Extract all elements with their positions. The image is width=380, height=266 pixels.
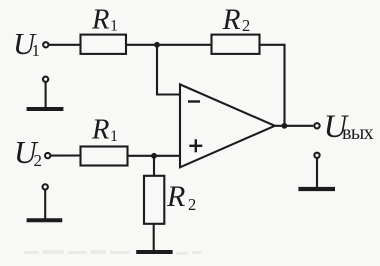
wire feedback down to output node xyxy=(283,44,285,126)
label U1 xyxy=(13,27,40,61)
plus sign non-inverting input xyxy=(189,139,202,152)
ground bar below R2 xyxy=(136,250,172,254)
junction node bottom xyxy=(151,153,157,159)
terminal circle input 2 xyxy=(45,153,50,158)
resistor R2 (top feedback) xyxy=(212,35,260,54)
svg-text:2: 2 xyxy=(242,16,250,35)
ground symbol below U2: bar xyxy=(27,218,63,222)
wire to inverting input xyxy=(156,93,180,95)
label R2 (top) xyxy=(222,4,251,36)
resistor R1 (bottom) xyxy=(81,147,128,166)
svg-text:1: 1 xyxy=(32,41,41,60)
ground symbol below U1: bar xyxy=(27,107,64,111)
wire R1 to R2 (top node) xyxy=(126,44,212,46)
junction node top xyxy=(154,42,160,48)
wire node down to inverting input xyxy=(156,45,158,95)
svg-text:1: 1 xyxy=(110,128,118,145)
op-amp DA1 triangle xyxy=(180,84,275,167)
ground symbol at output: lead xyxy=(316,158,318,187)
ground symbol below U1: lead xyxy=(45,82,47,107)
wire R1 to non-inverting input xyxy=(128,155,181,157)
ground symbol at output: terminal xyxy=(314,153,319,158)
svg-text:1: 1 xyxy=(110,17,118,34)
wire R2 to ground xyxy=(153,224,155,251)
ground symbol at output: bar xyxy=(298,187,335,191)
resistor R2 (vertical) xyxy=(144,176,164,224)
svg-text:R: R xyxy=(166,180,185,213)
junction node output xyxy=(282,123,288,129)
svg-text:2: 2 xyxy=(188,195,196,214)
svg-text:R: R xyxy=(91,5,109,36)
svg-text:R: R xyxy=(222,4,241,36)
wire U1 to R1 xyxy=(49,44,81,46)
wire node down to R2 xyxy=(153,156,155,176)
svg-text:вых: вых xyxy=(342,122,374,144)
ground symbol below U2: terminal xyxy=(43,184,48,189)
label R1 (top) xyxy=(91,5,118,36)
terminal circle input 1 xyxy=(43,42,48,47)
wire output xyxy=(274,125,313,127)
label U2 xyxy=(14,135,42,170)
faint scan ghost marks bottom-left xyxy=(24,250,202,255)
terminal circle output xyxy=(314,123,319,128)
label R1 (bottom) xyxy=(91,115,118,146)
label Uvyh xyxy=(324,109,374,145)
ground symbol below U2: lead xyxy=(44,190,46,219)
svg-text:R: R xyxy=(91,115,109,146)
resistor R1 (top) xyxy=(81,35,127,54)
svg-text:2: 2 xyxy=(34,151,43,170)
ground symbol below U1: terminal xyxy=(43,77,48,82)
label R2 (vertical) xyxy=(166,180,196,214)
wire R2 to corner xyxy=(260,44,285,46)
wire U2 to R1 bottom xyxy=(51,154,81,156)
minus sign inverting input xyxy=(188,100,200,102)
